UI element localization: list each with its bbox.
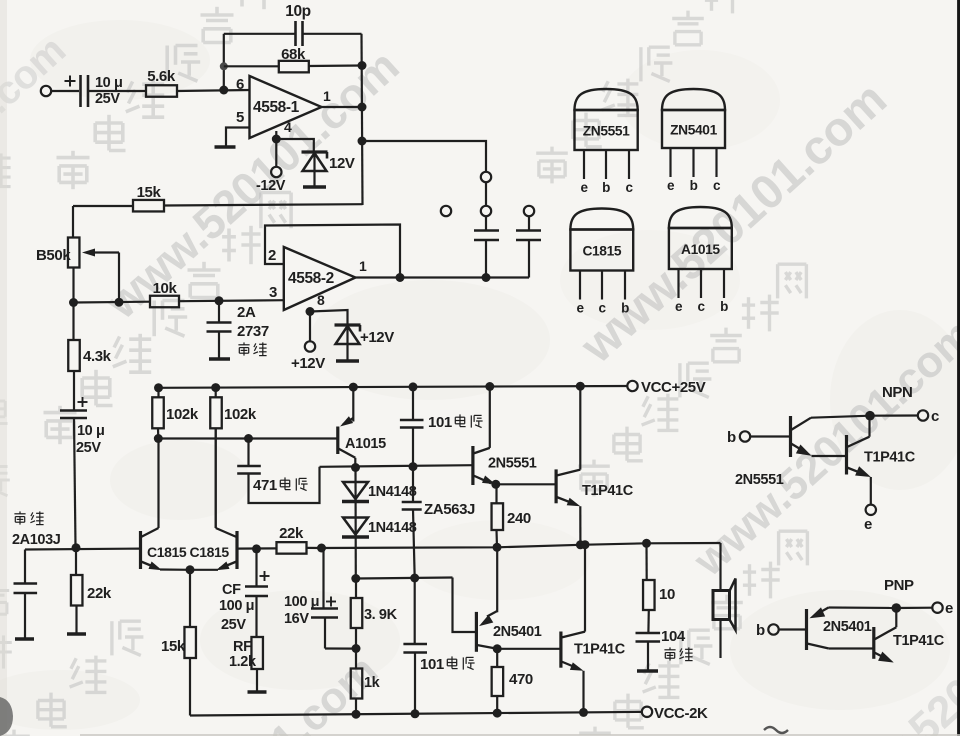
wire — [189, 658, 191, 716]
wire — [51, 90, 79, 92]
svg-text:C1815: C1815 — [190, 544, 230, 560]
svg-text:1.2k: 1.2k — [229, 654, 257, 670]
transistor Q4 2N5551 — [471, 446, 474, 485]
resistor 470 — [496, 649, 498, 667]
wire — [189, 570, 191, 627]
svg-text:RF: RF — [233, 639, 252, 655]
resistor 102k left — [157, 388, 159, 398]
node pin8 — [306, 307, 315, 316]
wire collector to base — [829, 647, 874, 649]
svg-text:104: 104 — [661, 628, 686, 645]
node ZA563J bottom — [410, 574, 419, 583]
node 3.9K/1k — [352, 644, 361, 653]
watermark 家电维修 bottom-left corner — [0, 730, 30, 736]
wire — [485, 183, 487, 206]
transistor Q8 2N5551 equivalent — [789, 416, 792, 457]
wire bottom rail — [190, 712, 642, 716]
wire to -12V terminal — [275, 139, 277, 167]
watermark 家电维修资料网 top-right — [536, 147, 568, 184]
ground 22k — [67, 632, 86, 636]
resistor 4.3k — [68, 340, 80, 371]
node 101 ceramic — [409, 382, 418, 391]
wire — [528, 240, 530, 278]
wire emitter run — [829, 606, 897, 609]
wire driver base run — [320, 465, 473, 467]
transistor Q10 2N5401 equivalent — [805, 609, 808, 650]
capacitor coupling right — [516, 229, 541, 232]
wire — [224, 65, 279, 67]
wire to 2N5401 base — [453, 578, 477, 633]
capacitor 101 ceramic lower — [414, 578, 416, 644]
wire — [88, 90, 146, 92]
transistor Q9 T1P41C equivalent NPN — [845, 435, 848, 475]
svg-text:ZA563J: ZA563J — [424, 501, 475, 518]
wire — [485, 217, 487, 231]
node 102k2 — [211, 383, 220, 392]
svg-text:A1015: A1015 — [345, 436, 386, 452]
scan edge bottom — [80, 734, 960, 736]
node pot bottom — [69, 298, 78, 307]
wire — [303, 33, 362, 35]
svg-text:+12V: +12V — [360, 329, 394, 346]
transistor Q7 T1P41C lower — [559, 632, 562, 668]
capacitor 10p — [294, 21, 297, 46]
svg-text:b: b — [720, 299, 728, 314]
node collector NPN — [865, 411, 875, 421]
capacitor 471 ceramic — [247, 439, 249, 466]
capacitor 10u 25V electrolytic — [78, 401, 88, 403]
terminal -12V — [271, 167, 281, 177]
speaker — [713, 591, 730, 620]
node A1015 emitter — [349, 383, 358, 392]
capacitor 100u 16V — [322, 548, 324, 608]
zener diode +12V — [335, 323, 361, 326]
diode 1N4148 lower — [343, 518, 368, 535]
transistor Q3 A1015 — [336, 427, 339, 455]
node pin4 — [272, 135, 281, 144]
svg-text:2A: 2A — [237, 304, 256, 321]
transistor Q1 C1815 left — [139, 531, 142, 569]
capacitor 2A 2737 polyester — [218, 301, 220, 322]
node 2N5401 collector — [493, 644, 502, 653]
svg-text:1: 1 — [359, 258, 367, 274]
wire pot bottom — [72, 268, 74, 303]
wire pin8 to zener — [310, 310, 348, 325]
op-amp U1 4558-2 — [284, 247, 356, 310]
node amp input — [72, 543, 81, 552]
terminal e NPN — [866, 505, 876, 515]
svg-text:3. 9K: 3. 9K — [364, 607, 398, 623]
capacitor 104 polyester — [636, 632, 661, 635]
svg-text:22k: 22k — [87, 585, 112, 602]
svg-text:-12V: -12V — [256, 178, 286, 194]
node e PNP — [892, 603, 902, 613]
wire output run — [400, 276, 529, 278]
node output 4558-2 — [396, 273, 405, 282]
capacitor ZA563J — [412, 467, 414, 502]
node output 4558-1 — [358, 103, 367, 112]
terminal VCC-2K — [642, 707, 652, 717]
capacitor coupling left — [474, 229, 499, 232]
wire down to pot — [72, 206, 74, 238]
svg-text:2737: 2737 — [237, 323, 269, 340]
connector pin right — [524, 206, 534, 216]
resistor 10 Zobel — [642, 539, 651, 548]
ground zener +12V — [336, 359, 359, 363]
svg-text:2N5401: 2N5401 — [823, 619, 872, 635]
pot wiper arrow — [93, 251, 119, 253]
resistor 5.6k — [146, 85, 177, 97]
node 240 bottom — [493, 543, 502, 552]
node 470 bottom — [493, 709, 502, 718]
package A1015 — [669, 207, 732, 228]
wire output stub 4558-2 — [356, 276, 401, 278]
svg-text:4558-1: 4558-1 — [253, 99, 300, 116]
svg-text:15k: 15k — [161, 638, 186, 655]
svg-text:8: 8 — [317, 292, 325, 308]
watermark www.520101.com bottom-right — [684, 310, 960, 586]
svg-text:e: e — [945, 600, 953, 617]
scan streak left edge — [0, 0, 7, 736]
svg-text:2N5401: 2N5401 — [493, 624, 542, 640]
svg-text:1k: 1k — [364, 675, 381, 691]
watermark .com fragment top-left corner — [0, 28, 74, 278]
wire — [896, 607, 932, 609]
resistor 22k feedback — [277, 542, 307, 554]
svg-text:101: 101 — [420, 656, 444, 673]
scan mark tilde — [764, 727, 788, 733]
node 1k bottom — [352, 710, 361, 719]
svg-text:10p: 10p — [285, 3, 311, 20]
wire — [177, 90, 250, 91]
svg-text:e: e — [580, 180, 588, 195]
connector pin middle — [481, 206, 491, 216]
svg-text:1: 1 — [323, 88, 331, 104]
wire — [73, 371, 75, 411]
wire — [870, 414, 918, 416]
svg-text:T1P41C: T1P41C — [864, 450, 916, 466]
wire diode chain — [354, 468, 356, 579]
svg-text:15k: 15k — [137, 184, 162, 201]
resistor 1k — [355, 649, 357, 669]
wire — [309, 64, 362, 67]
watermark fragment bottom-right corner — [816, 553, 960, 736]
transistor Q6 2N5401 — [475, 612, 478, 652]
scan blob bottom-left — [0, 697, 13, 736]
svg-text:c: c — [931, 408, 939, 425]
node branch y141 — [358, 137, 367, 146]
svg-text:470: 470 — [509, 671, 533, 688]
node 100u16V top — [317, 544, 326, 553]
svg-text:e: e — [864, 516, 872, 533]
wire output stub — [322, 106, 363, 108]
svg-text:CF: CF — [222, 582, 241, 598]
wire — [750, 435, 791, 437]
wire bias row — [356, 578, 453, 579]
svg-text:ZN5551: ZN5551 — [583, 124, 630, 139]
wire — [485, 240, 487, 278]
svg-text:b: b — [756, 622, 765, 639]
resistor 102k right — [215, 388, 217, 398]
node 102k1 — [154, 383, 163, 392]
wire — [74, 301, 151, 304]
svg-text:16V: 16V — [284, 611, 309, 627]
svg-text:68k: 68k — [281, 46, 306, 63]
svg-text:NPN: NPN — [882, 384, 912, 401]
wire — [74, 418, 76, 546]
transistor Q2 C1815 right — [235, 531, 238, 569]
svg-text:1N4148: 1N4148 — [368, 520, 417, 536]
svg-text:ZN5401: ZN5401 — [670, 123, 717, 138]
svg-text:b: b — [690, 178, 698, 193]
svg-text:e: e — [667, 178, 675, 193]
svg-text:c: c — [598, 301, 606, 316]
capacitor 10u 25V input electrolytic — [79, 75, 82, 107]
wire to connector — [362, 141, 486, 172]
wire to +12V terminal — [309, 312, 311, 342]
resistor 22k input — [75, 548, 77, 575]
ground zener 12V — [303, 185, 326, 189]
node 68k left — [220, 62, 228, 70]
package ZN5401 — [662, 89, 725, 110]
wire 10p top run — [224, 33, 295, 35]
node 471 top — [244, 434, 253, 443]
terminal VCC+25V — [627, 381, 637, 391]
scan edge right — [957, 0, 960, 736]
zener diode 12V — [302, 150, 328, 153]
svg-text:e: e — [576, 301, 584, 316]
svg-text:25V: 25V — [76, 440, 101, 456]
svg-text:10: 10 — [659, 586, 675, 603]
transistor Q11 T1P41C equivalent PNP — [872, 627, 875, 659]
watermark 家电维修资料网 bottom-middle — [579, 727, 611, 736]
svg-text:471: 471 — [253, 477, 277, 494]
svg-text:10 μ: 10 μ — [95, 75, 122, 91]
svg-text:T1P41C: T1P41C — [893, 633, 945, 649]
input terminal — [41, 86, 51, 96]
node T1P41C lower collector — [581, 540, 590, 549]
wire — [72, 303, 74, 341]
svg-text:4.3k: 4.3k — [83, 348, 112, 365]
watermark partial glyphs left edge — [0, 153, 11, 186]
svg-text:C1815: C1815 — [147, 544, 187, 560]
terminal e PNP — [932, 603, 942, 613]
node emitter bottom — [579, 708, 588, 717]
svg-text:10k: 10k — [153, 280, 178, 297]
node emitters — [186, 565, 195, 574]
wire collector run — [811, 416, 870, 418]
svg-text:VCC-2K: VCC-2K — [654, 705, 708, 722]
svg-text:102k: 102k — [166, 406, 199, 423]
node 2N5551 emitter — [491, 480, 500, 489]
diode 1N4148 upper — [343, 482, 368, 499]
watermark www.520101.com right-upper — [570, 73, 896, 374]
wire — [528, 217, 530, 231]
terminal b PNP — [768, 624, 778, 634]
resistor 68k feedback — [279, 61, 309, 73]
svg-text:B50k: B50k — [36, 247, 71, 264]
wire VCC rail — [159, 386, 628, 388]
wire pin4 stub — [275, 131, 277, 139]
wire — [779, 628, 807, 630]
ground 2A103J — [15, 637, 34, 641]
svg-text:T1P41C: T1P41C — [582, 483, 634, 499]
wire pin5 to ground — [226, 128, 250, 147]
svg-text:c: c — [713, 178, 721, 193]
svg-text:100 μ: 100 μ — [219, 598, 254, 614]
svg-text:2N5551: 2N5551 — [488, 456, 537, 472]
svg-text:e: e — [675, 299, 683, 314]
svg-text:b: b — [727, 429, 736, 446]
svg-text:c: c — [697, 299, 705, 314]
node feedback — [252, 544, 261, 553]
capacitor 101 ceramic upper — [412, 387, 414, 420]
package C1815 — [570, 209, 633, 230]
watermark 家电维修资料网 top-left — [57, 151, 90, 189]
svg-text:10 μ: 10 μ — [77, 423, 104, 439]
wire feedback 4558-2 — [265, 225, 400, 278]
svg-text:5.6k: 5.6k — [147, 68, 176, 85]
ground op-amp1 pin5 — [215, 145, 236, 149]
connector pin top — [481, 172, 491, 182]
svg-text:22k: 22k — [279, 525, 304, 542]
node 2N5551 collector — [485, 382, 494, 391]
node 101 bottom — [411, 709, 420, 718]
potentiometer B50k — [68, 238, 80, 268]
node 101/ZA junction — [409, 462, 418, 471]
svg-text:12V: 12V — [329, 155, 355, 172]
transistor Q5 T1P41C upper — [554, 469, 557, 503]
wire output rail — [307, 543, 721, 548]
node 68k right — [358, 61, 367, 70]
ground RF — [248, 690, 267, 694]
svg-text:2A103J: 2A103J — [12, 532, 61, 548]
wire pin8 stub — [309, 309, 311, 313]
resistor 10k — [150, 296, 179, 308]
svg-text:5: 5 — [236, 109, 244, 126]
terminal c NPN — [918, 410, 928, 420]
node T1P41C collector — [576, 382, 585, 391]
resistor 15k — [133, 200, 164, 212]
svg-text:1N4148: 1N4148 — [368, 484, 417, 500]
package ZN5551 — [575, 89, 638, 110]
svg-text:240: 240 — [507, 510, 531, 527]
resistor 15k emitter — [184, 627, 196, 658]
wire right feedback vertical — [362, 34, 363, 205]
svg-text:100 μ: 100 μ — [284, 594, 319, 610]
svg-text:2N5551: 2N5551 — [735, 472, 784, 488]
svg-text:+12V: +12V — [291, 355, 325, 372]
wire — [496, 483, 556, 485]
svg-text:b: b — [621, 301, 629, 316]
node wiper junction — [115, 298, 124, 307]
svg-text:6: 6 — [236, 76, 244, 93]
wire — [164, 204, 363, 205]
wire A1015 base run — [158, 437, 337, 439]
watermark 家电维修资料网 right-middle — [578, 460, 610, 497]
wire — [179, 300, 284, 301]
node pin3 / cap 2A — [215, 296, 224, 305]
resistor 240 — [495, 484, 497, 503]
svg-text:3: 3 — [269, 284, 277, 301]
node bias top — [351, 574, 360, 583]
svg-text:T1P41C: T1P41C — [574, 642, 626, 658]
node diff collector — [154, 434, 163, 443]
watermark 家电维修资料网 mid-left — [44, 406, 77, 444]
watermark www.520101.com upper-left — [95, 40, 408, 329]
wire base right run — [237, 547, 277, 549]
capacitor CF 100u 25V — [255, 549, 257, 587]
svg-text:4558-2: 4558-2 — [288, 270, 334, 287]
svg-text:c: c — [625, 180, 633, 195]
node under connector — [482, 273, 491, 282]
node pin6 — [219, 86, 228, 95]
wire 15k row — [73, 205, 133, 207]
wire to speaker — [719, 543, 721, 591]
terminal b NPN — [740, 431, 750, 441]
wire feedback vertical left — [223, 34, 225, 90]
resistor 3.9K — [355, 579, 357, 599]
wire pin4 to zener — [276, 139, 314, 152]
node A1015 collector — [351, 463, 360, 472]
svg-text:101: 101 — [428, 414, 452, 431]
svg-text:102k: 102k — [224, 406, 257, 423]
connector pin left — [441, 206, 451, 216]
svg-text:25V: 25V — [221, 617, 246, 633]
svg-text:A1015: A1015 — [681, 242, 720, 257]
ground 104 — [637, 669, 658, 673]
wire emitter to base — [812, 455, 847, 457]
svg-text:4: 4 — [284, 119, 292, 135]
svg-text:C1815: C1815 — [582, 244, 621, 259]
capacitor 2A103J polyester — [24, 550, 26, 584]
node T1P emitter — [576, 540, 585, 549]
svg-text:25V: 25V — [95, 91, 120, 107]
terminal +12V — [305, 341, 315, 351]
svg-text:VCC+25V: VCC+25V — [641, 379, 706, 396]
wire — [497, 648, 561, 650]
wire base run — [25, 547, 141, 550]
watermark www.520101.com bottom-left — [88, 646, 387, 736]
svg-text:2: 2 — [268, 247, 276, 264]
svg-text:b: b — [602, 180, 610, 195]
op-amp U1 4558-1 — [250, 76, 322, 138]
resistor RF 1.2k — [251, 637, 263, 669]
svg-text:PNP: PNP — [884, 577, 914, 594]
